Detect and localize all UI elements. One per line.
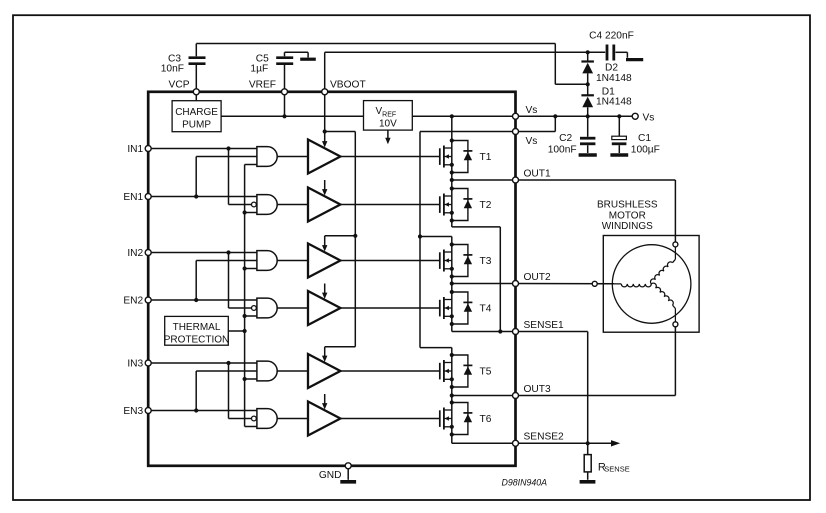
svg-text:THERMAL: THERMAL [173,322,221,333]
svg-text:VBOOT: VBOOT [330,80,366,91]
svg-text:SENSE1: SENSE1 [524,320,565,331]
svg-text:1µF: 1µF [250,63,268,74]
svg-text:VCP: VCP [169,80,190,91]
svg-text:Vs: Vs [526,105,538,116]
svg-text:IN1: IN1 [127,144,143,155]
svg-text:SENSE2: SENSE2 [524,432,565,443]
svg-text:GND: GND [319,470,342,481]
svg-text:100µF: 100µF [631,145,660,156]
svg-text:EN2: EN2 [123,296,143,307]
svg-text:T1: T1 [480,152,492,163]
svg-text:SENSE: SENSE [604,465,629,474]
svg-text:IN2: IN2 [127,248,143,259]
svg-text:Vs: Vs [643,112,655,123]
svg-text:OUT1: OUT1 [524,168,552,179]
svg-text:WINDINGS: WINDINGS [602,221,653,232]
svg-text:PROTECTION: PROTECTION [164,334,230,345]
svg-text:CHARGE: CHARGE [175,107,218,118]
svg-text:MOTOR: MOTOR [609,210,646,221]
svg-text:EN1: EN1 [123,192,143,203]
svg-text:C4 220nF: C4 220nF [589,31,634,42]
svg-text:Vs: Vs [526,136,538,147]
svg-text:1N4148: 1N4148 [596,96,632,107]
svg-text:C1: C1 [638,133,651,144]
svg-text:1N4148: 1N4148 [596,73,632,84]
svg-text:10V: 10V [379,119,397,130]
svg-text:EN3: EN3 [123,406,143,417]
svg-text:T3: T3 [480,256,492,267]
svg-text:D98IN940A: D98IN940A [502,478,548,488]
svg-text:T4: T4 [480,304,492,315]
svg-text:C2: C2 [559,133,572,144]
svg-text:OUT3: OUT3 [524,384,552,395]
svg-text:VREF: VREF [249,80,276,91]
svg-text:T5: T5 [480,367,492,378]
svg-text:100nF: 100nF [548,145,577,156]
svg-text:BRUSHLESS: BRUSHLESS [597,200,658,211]
svg-text:10nF: 10nF [161,63,184,74]
svg-text:T6: T6 [480,414,492,425]
svg-text:IN3: IN3 [127,359,143,370]
svg-text:T2: T2 [480,200,492,211]
svg-text:PUMP: PUMP [182,119,211,130]
svg-text:OUT2: OUT2 [524,272,552,283]
